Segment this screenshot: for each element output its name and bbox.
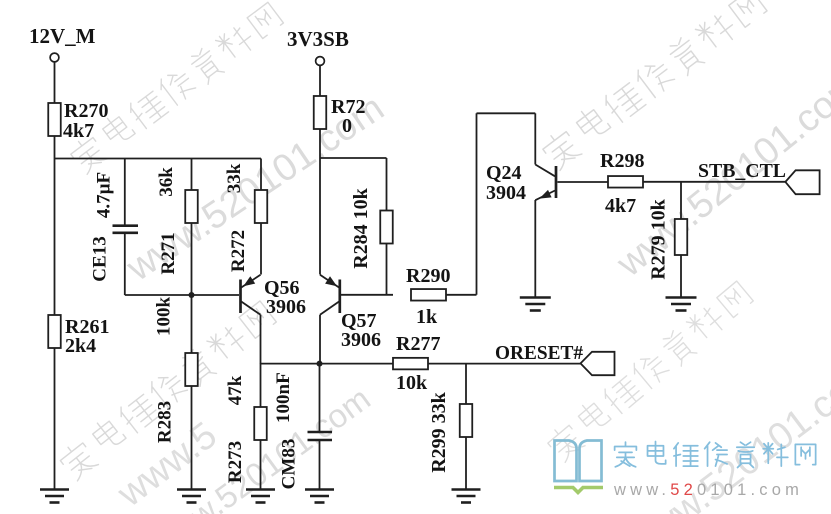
- watermark jiadian-1 top-left: [67, 0, 286, 176]
- connector STB_CTL flag: [785, 170, 819, 194]
- svg-text:ORESET#: ORESET#: [495, 342, 583, 364]
- wire R273 to ground: [260, 440, 262, 489]
- ground under R273: [246, 488, 275, 491]
- svg-text:R270: R270: [64, 100, 108, 122]
- wire R272 to Q56 emitter: [260, 223, 262, 275]
- node junction dot CM83: [317, 361, 323, 367]
- ground under CM83: [305, 488, 334, 491]
- wire R290 to Q24 collector: [446, 294, 477, 296]
- wire rail to CE13: [124, 159, 126, 225]
- wire Q24 base to R298: [558, 181, 609, 183]
- resistor R272: [255, 190, 268, 223]
- resistor R284: [380, 211, 393, 244]
- terminal 3V3SB: [316, 57, 325, 66]
- svg-text:47k: 47k: [225, 375, 246, 405]
- wire branch to R284: [320, 157, 387, 159]
- wire Q56 collector to node line: [260, 315, 262, 364]
- svg-text:R284 10k: R284 10k: [350, 187, 372, 268]
- svg-text:12V_M: 12V_M: [29, 24, 96, 48]
- svg-text:R272: R272: [228, 230, 249, 272]
- transistor Q56: [239, 280, 242, 314]
- svg-text:R277: R277: [396, 333, 440, 355]
- wire R271 to R283: [191, 223, 193, 353]
- node junction dot base of Q56: [189, 292, 195, 298]
- ground under R283: [177, 488, 206, 491]
- wire Q24 emitter to ground: [534, 200, 536, 297]
- wire R72 down to Q57 emitter: [319, 129, 321, 275]
- resistor R271: [185, 190, 198, 223]
- wire R299 to ground: [465, 437, 467, 489]
- ground under R261: [40, 488, 69, 491]
- svg-text:3V3SB: 3V3SB: [287, 27, 349, 51]
- svg-text:0: 0: [342, 115, 352, 137]
- svg-text:3906: 3906: [266, 296, 306, 318]
- resistor R261: [48, 315, 61, 348]
- svg-text:R279 10k: R279 10k: [648, 198, 670, 279]
- resistor R270: [48, 103, 61, 136]
- resistor R283: [185, 353, 198, 386]
- svg-text:33k: 33k: [224, 163, 245, 193]
- wire CM83 to ground: [319, 440, 321, 489]
- svg-text:4k7: 4k7: [63, 120, 94, 142]
- transistor Q57: [338, 280, 341, 314]
- svg-text:Q24: Q24: [486, 162, 522, 184]
- svg-text:R283: R283: [155, 401, 176, 443]
- capacitor CE13: [113, 224, 139, 227]
- ground under R279: [666, 296, 697, 299]
- svg-text:4k7: 4k7: [605, 195, 636, 217]
- svg-text:3906: 3906: [341, 329, 381, 351]
- wire Q57 collector to node: [319, 315, 321, 364]
- svg-text:1k: 1k: [416, 306, 438, 328]
- wire rail to R271: [191, 159, 193, 191]
- ground under Q24: [520, 296, 551, 299]
- resistor R277: [393, 358, 428, 370]
- svg-text:3904: 3904: [486, 182, 526, 204]
- svg-text:www.520101.com: www.520101.com: [613, 481, 803, 499]
- wire output node line: [261, 363, 394, 365]
- svg-text:CE13: CE13: [90, 236, 111, 281]
- resistor R279: [680, 182, 682, 219]
- resistor R299: [465, 364, 467, 404]
- connector ORESET# flag: [581, 352, 615, 375]
- transistor Q24: [555, 166, 558, 198]
- wire Q57 base line: [340, 294, 393, 296]
- resistor R72: [314, 96, 327, 129]
- wire Q56 base: [192, 294, 240, 296]
- logo text jiadianweixiuziliaowang: [615, 441, 816, 467]
- svg-text:CM83: CM83: [279, 439, 300, 490]
- watermark jiadian-2 bottom-left: [56, 298, 278, 482]
- wire top rail: [55, 158, 262, 160]
- svg-text:10k: 10k: [396, 372, 428, 394]
- svg-text:2k4: 2k4: [65, 335, 96, 357]
- logo book icon: [555, 441, 602, 482]
- svg-text:R271: R271: [158, 232, 179, 274]
- resistor R273: [260, 364, 262, 407]
- wire R298 to STB_CTL: [643, 181, 785, 183]
- wire R284 to base line: [386, 244, 388, 295]
- wire R277 to ORESET#: [428, 363, 581, 365]
- wire CE13 to base node: [124, 234, 126, 295]
- resistor R290: [411, 289, 446, 301]
- wire R270 to R261 (node with top rail): [54, 136, 56, 315]
- terminal 12V_M: [50, 53, 59, 62]
- svg-text:R290: R290: [406, 265, 450, 287]
- watermark jiadian-3 right: [539, 0, 770, 172]
- svg-text:36k: 36k: [156, 167, 177, 197]
- wire R283 to ground: [191, 386, 193, 489]
- watermark jiadian-4 bottom-right: [544, 278, 756, 463]
- wire R279 to ground: [680, 255, 682, 297]
- capacitor CM83: [319, 364, 321, 431]
- svg-text:4.7µF: 4.7µF: [94, 172, 115, 218]
- svg-text:100nF: 100nF: [273, 372, 294, 423]
- resistor R298: [608, 176, 643, 188]
- svg-text:100k: 100k: [154, 297, 175, 337]
- wire rail to R272: [260, 159, 262, 191]
- logo green underline: [554, 488, 603, 493]
- svg-text:R298: R298: [600, 150, 644, 172]
- svg-text:R273: R273: [225, 441, 246, 483]
- wire R261 to ground: [54, 348, 56, 489]
- svg-text:STB_CTL: STB_CTL: [698, 160, 786, 182]
- svg-text:R299 33k: R299 33k: [428, 391, 450, 472]
- wire 3V3SB to R72: [319, 66, 321, 97]
- wire 12V_M terminal to R270: [54, 62, 56, 103]
- ground under R299: [452, 488, 481, 491]
